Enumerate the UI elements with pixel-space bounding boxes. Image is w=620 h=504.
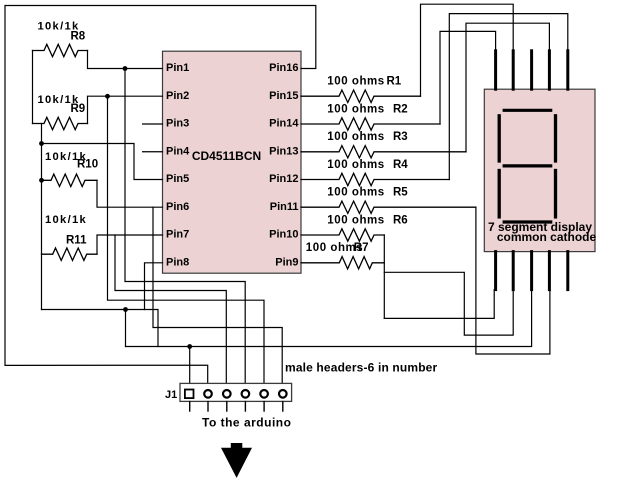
resistor R1 xyxy=(301,90,421,103)
svg-text:Pin8: Pin8 xyxy=(166,256,189,268)
svg-text:Pin16: Pin16 xyxy=(269,62,298,74)
svg-text:R2: R2 xyxy=(393,104,408,116)
svg-text:100 ohms: 100 ohms xyxy=(327,76,384,88)
display bottom pin 6 xyxy=(494,252,497,290)
connector J1 pin 1 square xyxy=(185,390,194,399)
resistor R7 label 100 ohms xyxy=(306,242,363,254)
arrow to arduino xyxy=(221,443,252,478)
resistor R11 xyxy=(42,248,98,260)
resistor R5 designator xyxy=(393,187,408,199)
svg-text:R9: R9 xyxy=(71,103,86,115)
wire R7 to display pin e xyxy=(384,290,494,319)
wire R10 output to Pin6 xyxy=(97,180,163,207)
connector J1 pin 3 circle xyxy=(223,390,231,398)
svg-text:Pin12: Pin12 xyxy=(269,173,298,185)
resistor R3 designator xyxy=(393,131,408,143)
IC U1 pin label Pin5 xyxy=(166,173,189,185)
svg-text:R1: R1 xyxy=(387,76,402,88)
resistor R2 xyxy=(301,118,440,130)
IC U1 pin label Pin15 xyxy=(269,90,298,102)
display top pin 2 xyxy=(512,51,515,89)
resistor R5 xyxy=(301,201,476,213)
resistor R6 designator xyxy=(393,215,408,227)
display bottom pin 9 xyxy=(548,252,551,290)
resistor R8 xyxy=(33,44,88,56)
wire R11 output to Pin7 xyxy=(97,235,163,254)
wire R4 to display pin b xyxy=(449,14,568,180)
resistor R9 label 10k/1k xyxy=(38,94,80,106)
wire bus to Pin5 xyxy=(42,144,163,180)
wire Pin16 VCC loop to header xyxy=(5,6,316,389)
connector J1 pin 1 bottom stub xyxy=(189,402,191,411)
svg-text:Pin10: Pin10 xyxy=(269,229,298,241)
IC U1 CD4511BCN body xyxy=(163,51,302,273)
svg-text:100 ohms: 100 ohms xyxy=(327,159,384,171)
svg-text:common cathode: common cathode xyxy=(497,230,597,244)
resistor R4 xyxy=(301,173,449,185)
resistor R8 label 10k/1k xyxy=(38,21,80,33)
svg-text:Pin14: Pin14 xyxy=(269,118,299,130)
display bottom pin 7 xyxy=(512,252,515,290)
wire R8 left to R9 left xyxy=(32,51,34,124)
wire Pin7 to header pin2 xyxy=(115,235,226,388)
svg-text:Pin15: Pin15 xyxy=(269,90,298,102)
svg-text:R10: R10 xyxy=(77,159,98,171)
resistor R10 xyxy=(42,174,98,186)
IC U1 pin label Pin8 xyxy=(166,256,189,268)
wire R1 to display pin f xyxy=(421,4,514,96)
display top pin 1 xyxy=(494,51,497,89)
display label line 2 xyxy=(497,230,597,244)
resistor R1 designator xyxy=(387,76,402,88)
IC U1 pin 4 stub xyxy=(143,151,163,153)
svg-text:R8: R8 xyxy=(71,30,86,42)
display segment d xyxy=(504,220,551,223)
resistor R10 label 10k/1k xyxy=(45,151,87,163)
IC U1 label CD4511BCN xyxy=(192,149,261,163)
connector J1 pin 6 circle xyxy=(279,390,287,398)
display segment f xyxy=(498,116,501,161)
resistor R2 designator xyxy=(393,104,408,116)
connector J1 designator xyxy=(165,389,177,401)
svg-text:Pin1: Pin1 xyxy=(166,62,189,74)
display top pin 4 xyxy=(548,51,551,89)
display bottom pin 10 xyxy=(566,252,569,290)
IC U1 pin label Pin6 xyxy=(166,201,189,213)
wire R9 output to Pin2 xyxy=(88,96,163,123)
wire R8 output to Pin1 xyxy=(88,51,163,69)
resistor R8 designator xyxy=(71,30,86,42)
display top pin 3 xyxy=(530,51,533,89)
connector J1 pin 2 bottom stub xyxy=(207,402,209,411)
resistor R7 designator xyxy=(354,242,369,254)
resistor R3 xyxy=(301,146,466,158)
resistor R11 designator xyxy=(66,235,87,247)
IC U1 pin label Pin16 xyxy=(269,62,298,74)
wire Pin1 to header pin3 xyxy=(125,69,245,389)
label To the arduino xyxy=(202,416,291,430)
svg-text:To the arduino: To the arduino xyxy=(202,416,291,430)
IC U1 pin 3 stub xyxy=(143,123,163,125)
junction bus-Pin5 wire xyxy=(39,141,44,146)
IC U1 pin label Pin11 xyxy=(270,201,299,213)
wire ground bus to ground rail xyxy=(42,310,159,347)
svg-text:R4: R4 xyxy=(393,159,408,171)
junction ground drop xyxy=(123,307,128,312)
svg-text:R5: R5 xyxy=(393,187,408,199)
svg-text:10k/1k: 10k/1k xyxy=(45,214,87,226)
svg-text:Pin2: Pin2 xyxy=(166,90,189,102)
connector J1 pin 2 circle xyxy=(204,390,212,398)
svg-text:R6: R6 xyxy=(393,215,408,227)
resistor R9 xyxy=(33,117,88,129)
wire ground drop xyxy=(125,310,127,347)
svg-text:J1: J1 xyxy=(165,389,177,401)
wire R6 to display pin d xyxy=(384,272,513,335)
svg-text:Pin4: Pin4 xyxy=(166,145,190,157)
IC U1 pin label Pin14 xyxy=(269,118,299,130)
resistor R4 designator xyxy=(393,159,408,171)
resistor R6 label 100 ohms xyxy=(327,215,384,227)
display top pin 5 xyxy=(566,51,569,89)
svg-text:Pin6: Pin6 xyxy=(166,201,189,213)
svg-text:CD4511BCN: CD4511BCN xyxy=(192,149,261,163)
IC U1 pin label Pin13 xyxy=(269,145,298,157)
display bottom pin 8 xyxy=(530,252,533,290)
svg-text:male headers-6 in number: male headers-6 in number xyxy=(285,361,437,375)
label male headers xyxy=(285,361,437,375)
resistor R10 designator xyxy=(77,159,98,171)
wire ground bus vertical xyxy=(41,124,43,310)
junction bus-R10 xyxy=(39,178,44,183)
display label line 1 xyxy=(488,220,592,234)
IC U1 pin label Pin1 xyxy=(166,62,189,74)
svg-text:Pin5: Pin5 xyxy=(166,173,189,185)
junction ground-header xyxy=(187,344,192,349)
svg-text:100 ohms: 100 ohms xyxy=(327,187,384,199)
wire Pin8 to ground bus xyxy=(145,263,163,310)
svg-text:Pin13: Pin13 xyxy=(269,145,298,157)
display segment b xyxy=(554,116,557,161)
svg-text:R11: R11 xyxy=(66,235,87,247)
svg-text:100 ohms: 100 ohms xyxy=(327,131,384,143)
display segment e xyxy=(498,171,501,217)
wire R5 to display pin c xyxy=(476,207,550,354)
svg-text:100 ohms: 100 ohms xyxy=(327,104,384,116)
7-segment display DS1 body xyxy=(484,89,595,251)
IC U1 pin label Pin9 xyxy=(275,256,298,268)
display segment a xyxy=(504,109,551,112)
resistor R7 xyxy=(301,257,384,269)
IC U1 pin label Pin3 xyxy=(166,118,189,130)
resistor R4 label 100 ohms xyxy=(327,159,384,171)
connector J1 pin 4 circle xyxy=(242,390,250,398)
display segment g xyxy=(504,164,551,167)
resistor R11 label 10k/1k xyxy=(45,214,87,226)
resistor R9 designator xyxy=(71,103,86,115)
resistor R2 label 100 ohms xyxy=(327,104,384,116)
svg-text:100 ohms: 100 ohms xyxy=(327,215,384,227)
IC U1 pin label Pin4 xyxy=(166,145,190,157)
resistor R5 label 100 ohms xyxy=(327,187,384,199)
wire Pin6 to header pin5 xyxy=(153,207,282,388)
svg-text:Pin9: Pin9 xyxy=(275,256,298,268)
svg-text:R3: R3 xyxy=(393,131,408,143)
resistor R3 label 100 ohms xyxy=(327,131,384,143)
connector J1 pin 5 circle xyxy=(260,390,268,398)
wire ground rail to display common xyxy=(126,290,532,347)
IC U1 pin label Pin2 xyxy=(166,90,189,102)
connector J1 body xyxy=(180,383,292,401)
wire R3 to display pin a xyxy=(466,23,549,152)
wire R6 R7 shared vertical xyxy=(383,235,385,318)
svg-text:Pin7: Pin7 xyxy=(166,229,189,241)
wire R2 to display pin g xyxy=(440,31,496,124)
svg-text:Pin11: Pin11 xyxy=(270,201,299,213)
connector J1 pin 3 bottom stub xyxy=(226,402,228,411)
display segment c xyxy=(554,171,557,217)
junction node Pin2 xyxy=(105,94,110,99)
IC U1 pin label Pin10 xyxy=(269,229,298,241)
connector J1 pin 5 bottom stub xyxy=(263,402,265,411)
junction node Pin1 xyxy=(123,66,128,71)
wire Pin2 to header pin4 xyxy=(108,96,265,388)
connector J1 pin 4 bottom stub xyxy=(244,402,246,411)
resistor R6 xyxy=(301,229,384,241)
wire ground to header pin1 xyxy=(189,347,191,389)
svg-text:Pin3: Pin3 xyxy=(166,118,189,130)
connector J1 pin 6 bottom stub xyxy=(282,402,284,411)
svg-text:R7: R7 xyxy=(354,242,369,254)
resistor R1 label 100 ohms xyxy=(327,76,384,88)
IC U1 pin label Pin7 xyxy=(166,229,189,241)
IC U1 pin label Pin12 xyxy=(269,173,298,185)
